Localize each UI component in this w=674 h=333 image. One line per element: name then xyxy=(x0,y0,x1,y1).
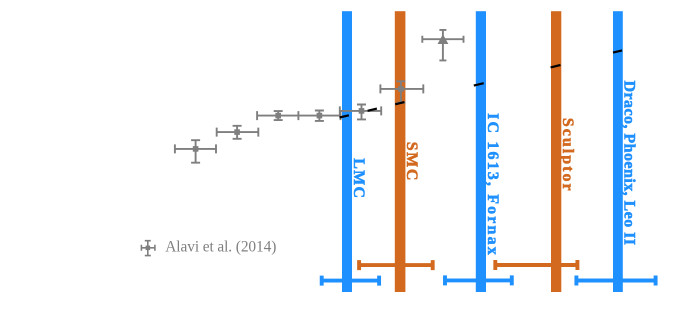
bar IC 1613, Fornax xyxy=(476,11,486,292)
bar Sculptor xyxy=(551,11,561,292)
P4 errorbars xyxy=(298,111,340,121)
svg-text:LMC: LMC xyxy=(350,158,367,199)
P2 errorbars xyxy=(217,126,259,139)
dash on Draco bar xyxy=(613,50,622,52)
P3 errorbars xyxy=(257,111,298,120)
bottom horizontal errorbar IC 1613, Fornax (blue) xyxy=(445,275,512,285)
bottom horizontal errorbar LMC (blue) xyxy=(322,276,379,286)
P7 errorbars xyxy=(380,81,423,102)
P3 marker xyxy=(275,113,281,119)
bottom horizontal errorbar SMC (orange) xyxy=(359,260,433,270)
black dashed extrapolation line (3 dashes) xyxy=(340,50,623,117)
P8 errorbars (triangle point) xyxy=(422,30,463,61)
bar LMC xyxy=(342,11,352,292)
svg-text:Alavi et al. (2014): Alavi et al. (2014) xyxy=(165,239,276,256)
bottom horizontal errorbar Sculptor (orange) xyxy=(495,260,577,270)
P2 marker xyxy=(234,129,240,135)
P1 errorbars xyxy=(175,140,216,163)
P6 errorbars xyxy=(340,105,381,120)
P6 marker xyxy=(359,108,365,114)
P4 marker xyxy=(317,113,323,119)
bottom horizontal errorbar Draco, Phoenix, Leo II (blue) xyxy=(576,276,655,286)
svg-text:IC 1613, Fornax: IC 1613, Fornax xyxy=(484,113,501,257)
dash on IC bar xyxy=(474,83,484,85)
dash on Sculptor bar xyxy=(551,65,561,67)
gray errorbar data points xyxy=(175,30,464,163)
bar SMC xyxy=(395,11,406,292)
svg-text:SMC: SMC xyxy=(403,142,420,182)
P7 marker xyxy=(398,86,404,92)
svg-text:Draco, Phoenix, Leo II: Draco, Phoenix, Leo II xyxy=(621,81,638,246)
bar Draco, Phoenix, Leo II xyxy=(613,11,623,292)
svg-text:Sculptor: Sculptor xyxy=(559,118,576,193)
P1 marker xyxy=(193,146,199,152)
P8 triangle marker xyxy=(438,34,449,44)
legend marker xyxy=(141,241,155,256)
